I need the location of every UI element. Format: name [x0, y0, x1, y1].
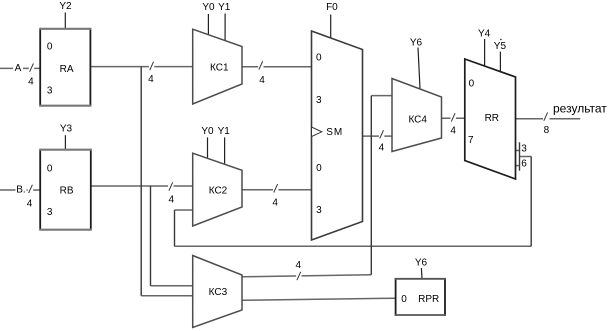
- svg-text:КС1: КС1: [210, 62, 229, 73]
- svg-text:4: 4: [259, 75, 265, 86]
- svg-text:3: 3: [316, 95, 322, 106]
- svg-text:4: 4: [28, 76, 34, 87]
- svg-text:SM: SM: [326, 127, 343, 138]
- svg-text:Y6: Y6: [415, 258, 428, 269]
- svg-text:3: 3: [47, 86, 53, 97]
- svg-text:4: 4: [296, 260, 302, 271]
- svg-text:6: 6: [521, 158, 527, 169]
- svg-text:Y2: Y2: [59, 1, 72, 12]
- svg-text:F0: F0: [326, 2, 338, 13]
- svg-text:4: 4: [450, 125, 456, 136]
- svg-text:RPR: RPR: [418, 294, 439, 305]
- svg-text:Y4: Y4: [478, 29, 491, 40]
- svg-text:3: 3: [521, 143, 527, 154]
- svg-text:0: 0: [316, 53, 322, 64]
- svg-text:7: 7: [468, 135, 474, 146]
- svg-text:A: A: [15, 63, 22, 74]
- svg-text:0: 0: [47, 41, 53, 52]
- svg-text:4: 4: [148, 74, 154, 85]
- svg-text:4: 4: [169, 195, 175, 206]
- svg-text:Y3: Y3: [60, 124, 73, 135]
- svg-text:Y5: Y5: [494, 41, 507, 52]
- svg-text:4: 4: [27, 199, 33, 210]
- svg-text:КС3: КС3: [209, 287, 228, 298]
- svg-text:КС4: КС4: [408, 114, 427, 125]
- svg-text:Y0: Y0: [202, 2, 215, 13]
- svg-text:0: 0: [47, 163, 53, 174]
- svg-text:Y1: Y1: [218, 2, 231, 13]
- svg-text:8: 8: [544, 125, 550, 136]
- svg-text:КС2: КС2: [209, 186, 228, 197]
- svg-text:0: 0: [469, 78, 475, 89]
- svg-text:3: 3: [47, 207, 53, 218]
- svg-text:0: 0: [401, 294, 407, 305]
- svg-text:RB: RB: [60, 185, 74, 196]
- svg-text:3: 3: [316, 205, 322, 216]
- svg-text:RA: RA: [60, 64, 74, 75]
- svg-text:результат: результат: [553, 101, 607, 115]
- svg-text:Y0: Y0: [201, 126, 214, 137]
- svg-text:4: 4: [272, 198, 278, 209]
- svg-text:Y1: Y1: [218, 126, 231, 137]
- svg-text:B.: B.: [16, 185, 25, 196]
- svg-text:4: 4: [379, 142, 385, 153]
- svg-text:RR: RR: [485, 113, 499, 124]
- svg-text:0: 0: [316, 163, 322, 174]
- svg-text:Y6: Y6: [410, 38, 423, 49]
